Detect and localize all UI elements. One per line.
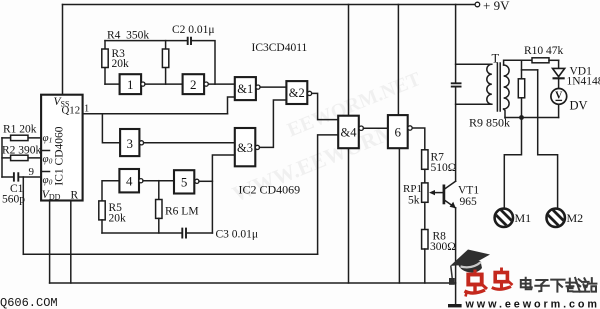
resistor R8 bbox=[422, 230, 428, 250]
svg-text:&2: &2 bbox=[289, 86, 305, 100]
svg-text:R10 47k: R10 47k bbox=[524, 45, 564, 57]
transformer T secondary winding bbox=[504, 65, 510, 109]
svg-text:5k: 5k bbox=[408, 195, 420, 207]
wire C1 branch down to node A line bbox=[22, 177, 24, 254]
svg-text:2: 2 bbox=[190, 77, 197, 92]
wire voltmeter down to node bbox=[558, 104, 560, 117]
resistor R7 bbox=[422, 150, 428, 170]
svg-text:20k: 20k bbox=[109, 213, 127, 225]
resistor R9 bbox=[521, 60, 523, 79]
svg-text:R9 850k: R9 850k bbox=[469, 116, 510, 130]
watermark text dianzixiazaizhan bbox=[521, 278, 597, 292]
wire &3 out to &2 input2 bbox=[260, 100, 287, 147]
wire junction horizontal bbox=[505, 117, 559, 119]
wire gate 6 out to R7 bbox=[412, 128, 425, 150]
IC1 CD4060 box bbox=[41, 95, 83, 201]
svg-text:300Ω: 300Ω bbox=[430, 241, 456, 253]
svg-text:R: R bbox=[71, 190, 79, 202]
transistor VT1 bbox=[443, 185, 446, 205]
wire secondary top to R10 bbox=[504, 60, 532, 65]
svg-text:4: 4 bbox=[126, 174, 133, 189]
inverter 4 bbox=[119, 169, 139, 192]
voltmeter DV bbox=[551, 89, 567, 105]
svg-text:1: 1 bbox=[84, 104, 89, 115]
svg-text:Q606.COM: Q606.COM bbox=[0, 296, 58, 309]
svg-text:&1: &1 bbox=[237, 82, 253, 96]
svg-text:VT1: VT1 bbox=[458, 185, 479, 197]
gate 6 bbox=[388, 115, 408, 148]
resistor R5 bbox=[99, 201, 105, 220]
faint diagonal site watermark bbox=[215, 68, 440, 207]
svg-text:C3 0.01μ: C3 0.01μ bbox=[216, 229, 259, 241]
wire inverter3 out to gate &3 input1 bbox=[144, 142, 235, 144]
wire diode to voltmeter bbox=[558, 79, 560, 88]
wire rail drop to gate 6 top bbox=[397, 5, 399, 116]
wire stub R9-top to M2 column bbox=[522, 69, 538, 71]
wire node-A horizontal run (C1 to gate &4 input 2) bbox=[23, 253, 317, 255]
inverter 5 bbox=[174, 170, 194, 193]
svg-text:+ 9V: + 9V bbox=[483, 0, 510, 13]
wire &4 out to gate 6 bbox=[363, 127, 388, 129]
wire primary top bbox=[456, 63, 492, 65]
wire secondary bottom down to junction line bbox=[504, 109, 505, 118]
watermark red bug char 2 bbox=[492, 268, 513, 290]
capacitor C2 bbox=[188, 37, 191, 45]
svg-text:R1 20k: R1 20k bbox=[3, 124, 37, 136]
svg-text:1: 1 bbox=[127, 77, 134, 92]
wire inverter5 out to &3/C3 column bbox=[199, 180, 212, 182]
wire left vertical joining R1 R2 C1 bbox=[1, 138, 3, 177]
resistor R10 bbox=[532, 58, 549, 63]
wire M2 feed bbox=[538, 70, 558, 209]
inverter 3 bbox=[120, 129, 139, 156]
wire M1 feed bbox=[504, 118, 521, 209]
gate &4 bbox=[338, 116, 359, 149]
wire inverter4 out to inverter5 bbox=[143, 180, 174, 182]
svg-text:R2 390k: R2 390k bbox=[2, 145, 42, 157]
node R9 bottom junction bbox=[519, 115, 524, 120]
capacitor C1 bbox=[2, 176, 41, 178]
svg-text:9: 9 bbox=[29, 166, 35, 178]
wire inverter1 out to inverter2 bbox=[145, 83, 183, 85]
motor M2 bbox=[543, 207, 583, 235]
svg-text:C2 0.01μ: C2 0.01μ bbox=[172, 24, 215, 36]
svg-text:3: 3 bbox=[126, 136, 133, 151]
watermark graduation cap bbox=[449, 250, 490, 285]
wire emitter down to ground bbox=[455, 208, 457, 305]
wire gate5/C3 column to &3 input2 bbox=[212, 155, 234, 233]
svg-text:DV: DV bbox=[570, 99, 588, 113]
wire into inverter 1 bbox=[105, 83, 120, 85]
svg-text:965: 965 bbox=[460, 196, 478, 208]
ground bbox=[448, 304, 462, 307]
resistor R1 bbox=[2, 137, 41, 139]
transformer T primary winding bbox=[487, 64, 492, 104]
wire Q12 output line bbox=[83, 113, 228, 115]
svg-text:5: 5 bbox=[181, 175, 188, 190]
svg-text:1N4148: 1N4148 bbox=[567, 76, 600, 88]
resistor R3 bbox=[104, 41, 106, 85]
wire &4 input2 from node-A column bbox=[318, 135, 339, 254]
motor M1 bbox=[491, 207, 531, 235]
svg-text:510Ω: 510Ω bbox=[431, 162, 457, 174]
svg-text:T: T bbox=[492, 52, 500, 66]
gate &3 bbox=[235, 128, 256, 166]
svg-text:R4 350k: R4 350k bbox=[107, 30, 149, 42]
wire bottom rail (ground return) bbox=[50, 282, 456, 284]
resistor R2 bbox=[2, 157, 41, 159]
svg-text:20k: 20k bbox=[112, 58, 130, 70]
svg-text:Q12: Q12 bbox=[62, 105, 81, 117]
svg-text:&3: &3 bbox=[237, 141, 253, 155]
resistor R6 bbox=[156, 200, 162, 219]
wire rail drop through snubber to primary/collector bbox=[455, 5, 457, 182]
svg-text:IC1 CD4060: IC1 CD4060 bbox=[54, 126, 66, 185]
svg-text:6: 6 bbox=[395, 125, 402, 140]
watermark red bug char 1 bbox=[465, 270, 488, 297]
svg-text:IC2 CD4069: IC2 CD4069 bbox=[239, 183, 301, 197]
node +9V terminal bbox=[475, 2, 480, 7]
svg-text:V: V bbox=[555, 90, 563, 101]
wire VDD pin down to bottom rail bbox=[49, 201, 51, 284]
potentiometer RP1 bbox=[422, 183, 428, 202]
capacitor across primary bbox=[451, 83, 462, 86]
wire Vss pin from rail to IC1 bbox=[62, 5, 64, 95]
wire Q12 branch down to gate 3 input bbox=[102, 114, 120, 143]
wire gate 6 bottom to bottom rail bbox=[398, 148, 400, 283]
gate &2 bbox=[286, 81, 307, 104]
inverter 2 bbox=[183, 74, 205, 94]
wire R6 tap from 4-5 link bbox=[158, 181, 160, 200]
svg-text:R6 LM: R6 LM bbox=[165, 206, 199, 218]
svg-text:RP1: RP1 bbox=[403, 183, 422, 195]
svg-text:M2: M2 bbox=[567, 211, 584, 225]
diode VD1 bbox=[553, 68, 565, 76]
svg-text:M1: M1 bbox=[515, 211, 532, 225]
wire &2 out to &4 input1 bbox=[312, 93, 339, 119]
svg-text:&4: &4 bbox=[341, 126, 358, 140]
wire bottom RC run bbox=[102, 232, 212, 234]
wire &1 out to &2 bbox=[260, 86, 286, 88]
wire inverter2 out to gate &1 input1 bbox=[208, 83, 235, 85]
inverter 1 bbox=[120, 74, 142, 94]
capacitor C3 bbox=[182, 228, 186, 239]
svg-text:560p: 560p bbox=[2, 194, 25, 206]
gate &1 bbox=[235, 77, 256, 100]
resistor R4 bbox=[165, 41, 167, 85]
svg-text:www.eeworm.com: www.eeworm.com bbox=[465, 299, 600, 309]
wire +9V top rail bbox=[63, 4, 476, 6]
wire RC top run (R3/R4/C2) bbox=[105, 41, 215, 85]
svg-text:IC3CD4011: IC3CD4011 bbox=[252, 42, 308, 54]
wire R10 to diode bbox=[558, 60, 560, 68]
wire inverter4 input from R5 bbox=[102, 181, 119, 201]
wire R pin down to bottom rail bbox=[70, 201, 72, 284]
wire rail drop to &4 top bbox=[348, 5, 350, 116]
transformer core bbox=[497, 63, 500, 111]
wire primary bottom bbox=[456, 103, 492, 105]
wire Q12 up to gate &1 input 2 bbox=[228, 97, 235, 114]
wire &4 bottom to bottom rail bbox=[348, 148, 350, 283]
